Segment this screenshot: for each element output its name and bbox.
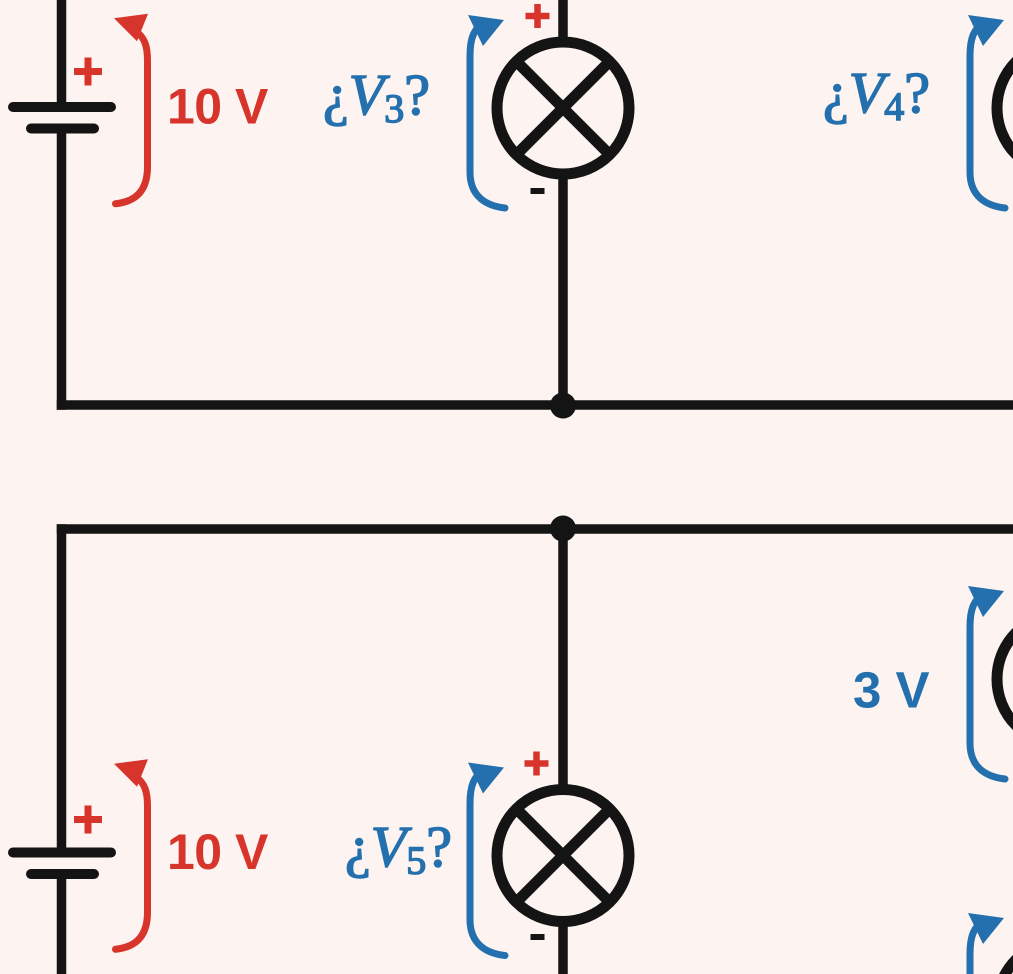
svg-text:¿V5?: ¿V5? <box>345 814 452 883</box>
lamp L1 <box>497 42 629 174</box>
wire lamp L1 top lead <box>558 0 568 46</box>
svg-text:10 V: 10 V <box>167 79 269 135</box>
wire battery B2 bottom lead <box>57 874 67 974</box>
blue voltage arrow V3 lamp L1 <box>468 15 505 208</box>
svg-text:10 V: 10 V <box>167 824 269 880</box>
blue voltage arrow 3V lamp L4 <box>968 586 1005 779</box>
polarity plus battery B2 <box>74 806 102 834</box>
blue voltage arrow V5 lamp L3 <box>468 763 505 956</box>
lamp L4 (partially visible right edge) <box>997 613 1013 745</box>
svg-text:¿V4?: ¿V4? <box>823 60 930 129</box>
wire battery B1 bottom lead <box>57 128 67 410</box>
wire battery B2 top lead <box>57 524 67 848</box>
lamp L3 <box>497 790 629 922</box>
lamp L5 (partially visible bottom right corner) <box>997 940 1013 974</box>
wire lamp L3 top lead <box>558 529 568 793</box>
battery B1 <box>13 107 111 129</box>
blue voltage arrow V4 lamp L2 <box>968 15 1005 208</box>
red voltage arrow battery B2 <box>114 759 148 949</box>
wire bottom rail of top circuit <box>57 400 1013 410</box>
wire top rail of bottom circuit <box>57 524 1013 534</box>
polarity plus lamp L3 <box>525 752 549 776</box>
wire lamp L1 bottom lead <box>558 170 568 405</box>
polarity minus lamp L1 <box>531 188 545 194</box>
wire lamp L3 bottom lead <box>558 918 568 974</box>
polarity minus lamp L3 <box>531 934 545 940</box>
red voltage arrow battery B1 <box>114 14 148 204</box>
battery B2 <box>13 853 111 875</box>
polarity plus battery B1 <box>74 58 102 86</box>
svg-text:3 V: 3 V <box>853 662 930 719</box>
junction node B <box>550 516 576 542</box>
wire battery B1 top lead <box>57 0 67 103</box>
lamp L2 (partially visible right edge) <box>997 42 1013 174</box>
blue voltage arrow lamp L5 (partially visible) <box>968 913 1005 974</box>
svg-text:¿V3?: ¿V3? <box>323 62 430 131</box>
junction node A <box>550 393 576 419</box>
polarity plus lamp L1 <box>526 4 550 28</box>
